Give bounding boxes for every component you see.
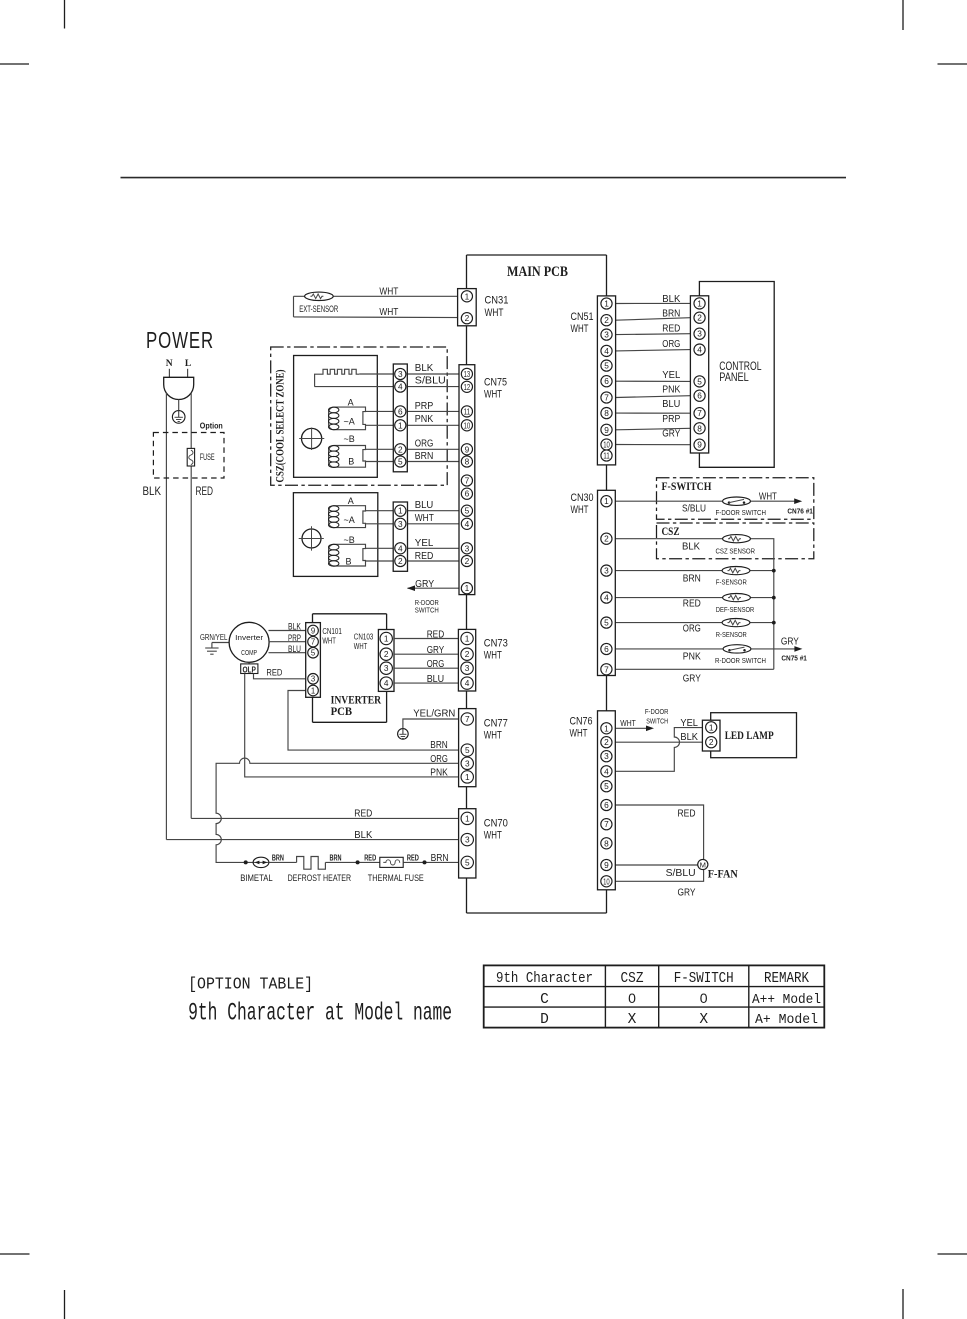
svg-text:WHT: WHT [379,306,398,318]
stepper coil B (R damper) [329,544,366,566]
wire PNK CN30 pin6 through R-DOOR SWITCH (arrow to CN75) [615,646,802,652]
svg-text:5: 5 [311,649,316,658]
svg-text:WHT: WHT [322,637,336,646]
svg-text:~A: ~A [344,416,355,426]
svg-text:SWITCH: SWITCH [415,606,439,615]
svg-text:PRP: PRP [662,413,680,425]
svg-text:6: 6 [604,800,609,810]
CSZ damper assembly box [294,356,378,478]
junction F-SENSOR to bus [772,569,776,573]
connector CN77 WHT on main PCB [459,709,476,787]
svg-text:3: 3 [311,675,315,684]
svg-text:PRP: PRP [415,400,434,412]
svg-text:8: 8 [465,456,470,466]
svg-text:GRY: GRY [662,428,680,440]
svg-text:L: L [185,359,191,369]
svg-text:LED LAMP: LED LAMP [725,728,774,742]
thermistor DEF-SENSOR [723,594,751,602]
svg-text:RED: RED [354,808,372,820]
wire chain thermal fuse to CN70 pin5 [403,861,467,863]
svg-text:BLU: BLU [662,398,680,410]
wire BRN CN51 to control panel [616,318,691,321]
svg-text:REMARK: REMARK [764,970,809,987]
svg-text:ORG: ORG [662,338,680,350]
connector CN30 WHT on main PCB [598,490,616,675]
svg-text:N: N [166,359,173,369]
wire GRY CN30 pin7 to sensor bus [615,668,774,670]
svg-text:3: 3 [465,835,470,845]
svg-text:PCB: PCB [331,704,353,718]
svg-text:GRY: GRY [427,644,445,656]
svg-text:8: 8 [604,408,609,418]
svg-text:WHT: WHT [485,307,504,319]
wire ORG CN30 pin5 through R-SENSOR [615,622,774,624]
svg-text:9: 9 [311,626,315,635]
svg-text:3: 3 [465,543,470,553]
svg-text:[OPTION TABLE]: [OPTION TABLE] [188,975,313,994]
label CN77 WHT [484,718,508,742]
svg-text:BLK: BLK [680,731,698,743]
svg-text:1: 1 [465,583,470,593]
svg-text:9: 9 [604,860,609,870]
svg-text:F-SENSOR: F-SENSOR [716,578,747,587]
svg-text:MAIN PCB: MAIN PCB [507,264,568,280]
svg-text:CN75 #1: CN75 #1 [781,654,807,663]
svg-text:ORG: ORG [427,658,445,670]
wire GRY CN76 pin10 to F-FAN [615,870,703,882]
svg-text:12: 12 [464,382,471,392]
svg-text:~A: ~A [344,515,355,525]
svg-text:4: 4 [384,678,389,688]
junction defrost chain left [244,860,248,864]
svg-text:R-SENSOR: R-SENSOR [716,630,747,639]
svg-text:10: 10 [603,439,610,449]
earth ground symbol on plug [172,400,185,424]
svg-text:7: 7 [604,819,609,829]
svg-text:GRY: GRY [415,578,434,590]
wire RED CN103 pin1 to CN73 pin1 [394,638,467,640]
svg-text:WHT: WHT [484,650,502,662]
svg-text:POWER: POWER [146,327,214,353]
fuse FUSE [187,448,194,466]
earth ground (compressor) [205,643,229,655]
wire BLK CN30 pin2 through CSZ SENSOR to bus [615,539,774,670]
svg-text:1: 1 [465,813,470,823]
svg-text:YEL: YEL [415,537,434,549]
svg-text:11: 11 [464,406,471,416]
svg-text:3: 3 [398,369,403,379]
svg-text:CN30: CN30 [571,492,594,504]
svg-text:WHT: WHT [484,388,502,400]
option dashed box [153,433,224,479]
defrost heater DEFROST HEATER [297,857,326,870]
svg-text:BLU: BLU [415,499,434,511]
svg-text:1: 1 [604,496,609,506]
stepper coil A (R damper) [329,506,366,528]
wire GRY CN51 to control panel [616,444,691,446]
svg-text:FUSE: FUSE [200,452,215,462]
option table [484,965,825,1027]
svg-text:WHT: WHT [620,718,636,728]
wire RED from plug (line) through fuse [190,393,192,819]
connector LED lamp header [702,720,720,751]
svg-text:2: 2 [465,313,470,323]
wire BLU coil A to CN75 pin5 [365,510,466,512]
svg-text:S/BLU: S/BLU [666,867,696,879]
svg-text:BLU: BLU [288,644,301,654]
svg-text:F-SWITCH: F-SWITCH [662,481,712,493]
svg-text:7: 7 [311,638,315,647]
svg-text:PANEL: PANEL [719,372,749,384]
svg-text:WHT: WHT [354,642,368,651]
connector R damper header [393,502,407,571]
wire BLK CN76 pin2 to LED lamp pin2 [615,741,711,743]
svg-text:2: 2 [465,556,470,566]
svg-text:~B: ~B [344,434,355,444]
control panel box [699,282,774,468]
svg-text:WHT: WHT [484,730,502,742]
svg-text:THERMAL FUSE: THERMAL FUSE [368,873,424,883]
svg-text:2: 2 [398,556,403,566]
svg-text:CN73: CN73 [484,638,508,650]
svg-text:A: A [348,496,354,506]
wire BLK from plug (neutral) [165,393,167,840]
svg-text:9th Character at Model name: 9th Character at Model name [188,998,452,1027]
svg-text:3: 3 [604,330,609,340]
wire RED coil B to CN75 pin2 [365,560,466,562]
svg-text:CSZ(COOL SELECT ZONE): CSZ(COOL SELECT ZONE) [275,369,287,482]
wire BRN CN101 pin1 to CN77 pin5 [288,691,467,751]
wire S/BLU CN76 pin9 to F-FAN [615,864,697,866]
svg-text:5: 5 [398,456,403,466]
svg-text:6: 6 [697,391,702,401]
compressor motor Inverter COMP [229,622,269,662]
svg-text:CN103: CN103 [354,633,374,642]
label CONTROL PANEL [719,361,762,384]
option table caption [188,975,452,1027]
svg-text:10: 10 [464,420,471,430]
wire PRP CN51 to control panel [616,428,691,430]
svg-text:A: A [348,397,354,407]
wire WHT coil ~A to CN75 pin4 [365,523,466,525]
svg-text:9: 9 [465,444,470,454]
junction DEF-SENSOR to bus [772,596,776,600]
svg-text:2: 2 [697,313,702,323]
inverter PCB box [313,614,387,723]
connector CN75 WHT on main PCB [459,365,475,595]
svg-text:A++ Model: A++ Model [752,993,821,1008]
svg-text:C: C [540,992,549,1008]
svg-text:RED: RED [662,323,680,335]
svg-text:9: 9 [697,440,702,450]
svg-text:BLU: BLU [427,673,445,685]
LED lamp box [711,713,797,758]
svg-text:Inverter: Inverter [235,633,264,642]
svg-text:YEL: YEL [680,717,698,729]
label R-DOOR SWITCH (CN75 pin1 dest) [415,598,439,615]
table row D [540,1012,818,1028]
label INVERTER PCB [331,693,382,719]
wire PNK OLP to CN77 pin1 [245,674,467,777]
svg-text:PNK: PNK [662,383,680,395]
connector CN31 WHT on main PCB [458,289,477,326]
svg-text:1: 1 [465,291,470,301]
svg-text:5: 5 [604,361,609,371]
svg-text:WHT: WHT [759,491,777,503]
svg-text:GRY: GRY [678,886,696,898]
svg-text:1: 1 [465,772,470,782]
svg-text:CN76: CN76 [570,716,593,728]
wire RED power line to CN70 pin1 [191,817,467,819]
svg-text:RED: RED [678,807,696,819]
svg-text:3: 3 [398,519,403,529]
svg-text:RED: RED [196,486,214,498]
main PCB U-MAIN outline [467,255,607,913]
svg-text:BRN: BRN [415,450,434,462]
thermistor R-SENSOR [722,619,750,627]
wire RED CN51 to control panel [616,333,691,336]
CSZ cool select zone dash-dot enclosure [271,347,448,485]
wire PNK coil ~A to CN75 pin10 [366,424,467,426]
wire RED CN30 pin4 through DEF-SENSOR [615,597,774,599]
svg-text:3: 3 [465,663,470,673]
svg-text:CSZ SENSOR: CSZ SENSOR [716,546,756,555]
label CN70 WHT [484,817,508,841]
svg-text:WHT: WHT [415,512,434,524]
wire ORG CN51 to control panel [616,350,691,351]
svg-text:CN70: CN70 [484,817,508,829]
power plug terminal labels N L [166,359,191,369]
svg-text:OLP: OLP [242,664,256,674]
svg-text:M: M [700,860,706,869]
svg-text:11: 11 [603,450,610,460]
svg-text:X: X [699,1012,708,1028]
junction defrost chain right [423,860,427,864]
svg-text:PRP: PRP [288,633,301,643]
connector control panel header [690,296,708,453]
svg-text:6: 6 [604,644,609,654]
label F-DOOR SWITCH (CN76 pin1 dest) [645,707,669,725]
wire BLK compressor to CN101 pin9 [269,630,314,632]
label CN76 WHT [570,716,593,740]
wire GRY CN75 pin1 to R-DOOR SWITCH (arrow) [407,585,467,591]
svg-text:RED: RED [266,668,282,679]
connector CN70 WHT on main PCB [459,809,476,878]
wire chain bimetal to heater [269,861,297,863]
svg-text:YEL: YEL [662,369,680,381]
label CN101 WHT [322,627,342,646]
svg-text:CSZ: CSZ [621,970,644,987]
svg-text:1: 1 [709,722,714,732]
overload protector OLP [241,664,258,674]
svg-text:4: 4 [465,519,470,529]
svg-text:8: 8 [604,838,609,848]
svg-text:BLK: BLK [682,541,700,553]
wire WHT to CN31 pin1 [294,295,467,297]
svg-text:8: 8 [697,423,702,433]
wire BLK heater to CN75 pin13 [359,373,466,375]
svg-text:WHT: WHT [570,728,588,740]
svg-text:BLK: BLK [662,293,680,305]
svg-text:4: 4 [604,593,609,603]
connector CSZ damper header [393,364,407,472]
svg-text:4: 4 [398,382,403,392]
label CN30 WHT [571,492,594,516]
wire YEL/GRN CN77 pin7 to earth [403,719,467,729]
svg-text:7: 7 [465,475,470,485]
svg-text:3: 3 [465,758,470,768]
svg-text:DEF-SENSOR: DEF-SENSOR [716,605,755,614]
svg-text:BIMETAL: BIMETAL [240,873,273,883]
svg-text:1: 1 [398,506,403,516]
door switch F-DOOR SWITCH [723,497,751,505]
junction defrost chain mid [356,860,360,864]
svg-text:BRN: BRN [662,308,680,320]
svg-text:7: 7 [465,714,470,724]
svg-text:RED: RED [407,853,419,862]
svg-text:BRN: BRN [683,572,701,584]
svg-text:2: 2 [604,737,609,747]
wire PRP compressor to CN101 pin7 [269,641,313,643]
svg-text:5: 5 [465,857,470,867]
wire PNK CN51 to control panel [616,396,691,398]
svg-text:EXT-SENSOR: EXT-SENSOR [299,304,338,314]
svg-text:6: 6 [604,376,609,386]
connector CN76 WHT on main PCB [598,711,616,890]
svg-text:2: 2 [465,649,470,659]
svg-text:CSZ: CSZ [662,526,680,538]
damper motor symbol (CSZ) [299,428,324,450]
svg-text:2: 2 [604,534,609,544]
svg-text:1: 1 [604,723,609,733]
svg-text:S/BLU: S/BLU [682,503,706,515]
wire BLK CN51 to control panel [616,302,691,304]
svg-text:X: X [628,1012,637,1028]
wire YEL CN51 to control panel [616,380,691,382]
thermistor EXT-SENSOR [305,292,334,300]
svg-text:GRN/YEL: GRN/YEL [200,633,228,642]
svg-text:PNK: PNK [683,650,701,662]
svg-text:F-SWITCH: F-SWITCH [674,970,734,987]
svg-text:3: 3 [384,663,389,673]
svg-text:Option: Option [200,422,223,431]
svg-text:D: D [540,1012,549,1028]
svg-text:RED: RED [364,853,376,862]
wire ORG coil ~B to CN75 pin9 [366,448,467,450]
svg-text:3: 3 [697,329,702,339]
wire ORG CN77 pin3 to defrost circuit [216,758,467,862]
svg-text:5: 5 [465,745,470,755]
svg-text:ORG: ORG [683,622,701,634]
label CN73 WHT [484,638,508,662]
svg-text:7: 7 [697,408,702,418]
svg-text:ORG: ORG [415,438,434,450]
junction R-SENSOR to bus [772,621,776,625]
R damper assembly box [293,493,377,577]
bimetal thermostat BIMETAL [253,857,269,867]
svg-text:CN75: CN75 [484,376,507,388]
connector CN103 WHT on inverter PCB [378,630,394,692]
thermistor CSZ SENSOR [723,535,751,543]
svg-text:7: 7 [604,664,609,674]
svg-text:13: 13 [464,369,471,379]
svg-text:A+ Model: A+ Model [755,1013,818,1028]
svg-text:BRN: BRN [430,739,448,751]
damper motor symbol (R) [299,526,324,550]
svg-text:CN101: CN101 [322,627,342,636]
svg-text:1: 1 [697,298,702,308]
svg-text:S/BLU: S/BLU [415,375,446,387]
wire PRP coil A to CN75 pin11 [366,410,467,412]
svg-text:F-DOOR: F-DOOR [645,707,669,716]
svg-text:COMP: COMP [241,648,257,657]
F-SWITCH dash-dot box [657,478,814,520]
svg-text:CN31: CN31 [485,294,509,306]
wire BRN CN30 pin3 through F-SENSOR [615,570,774,572]
svg-text:CN77: CN77 [484,718,508,730]
svg-text:1: 1 [384,633,389,643]
power plug [164,369,194,400]
wire BRN coil B to CN75 pin8 [366,461,467,463]
svg-text:WHT: WHT [379,286,398,298]
svg-text:RED: RED [415,550,434,562]
svg-text:9th Character: 9th Character [496,970,593,987]
wire BLK power neutral to CN70 pin3 [166,839,466,841]
wire chain heater to junction [325,861,379,863]
heater element (CSZ) castellated [315,369,360,386]
svg-text:0: 0 [700,990,708,1006]
thermistor F-SENSOR [722,567,750,575]
svg-text:2: 2 [604,315,609,325]
svg-text:PNK: PNK [430,766,448,778]
svg-text:5: 5 [604,781,609,791]
svg-text:CONTROL: CONTROL [719,361,762,373]
wire S/BLU heater to CN75 pin12 [315,386,467,388]
wire YEL CN76 pin4 to LED lamp pin1 [615,728,711,772]
wire WHT CN30 pin1 through F-DOOR SWITCH [615,498,802,504]
label CN103 WHT [354,633,374,651]
door switch R-DOOR SWITCH [723,645,751,653]
connector CN101 WHT on inverter PCB [306,623,321,698]
wire YEL coil ~B to CN75 pin3 [365,547,466,549]
wire WHT CN76 pin1 to F-door switch (arrow) [615,726,654,732]
svg-text:9: 9 [604,425,609,435]
svg-text:F-DOOR SWITCH: F-DOOR SWITCH [716,508,767,517]
wire GRY CN103 pin2 to CN73 pin2 [394,653,467,655]
svg-text:1: 1 [311,686,315,695]
svg-text:BLK: BLK [288,622,301,632]
svg-text:R-DOOR SWITCH: R-DOOR SWITCH [715,656,766,665]
svg-text:10: 10 [603,876,610,886]
svg-text:BRN: BRN [272,853,284,862]
svg-text:5: 5 [604,618,609,628]
connector CN51 WHT on main PCB [597,296,615,465]
svg-text:6: 6 [398,406,403,416]
svg-text:4: 4 [398,543,403,553]
wire BLU CN103 pin4 to CN73 pin4 [394,682,467,684]
svg-text:B: B [346,556,352,566]
svg-text:4: 4 [604,766,609,776]
wire WHT to CN31 pin2 [294,296,467,317]
fan motor F-FAN [698,859,708,869]
svg-text:BLK: BLK [354,829,372,841]
svg-text:RED: RED [683,597,701,609]
svg-text:~B: ~B [344,535,355,545]
svg-text:7: 7 [604,392,609,402]
svg-text:1: 1 [465,633,470,643]
label CN51 WHT [571,311,594,335]
svg-text:1: 1 [604,298,609,308]
